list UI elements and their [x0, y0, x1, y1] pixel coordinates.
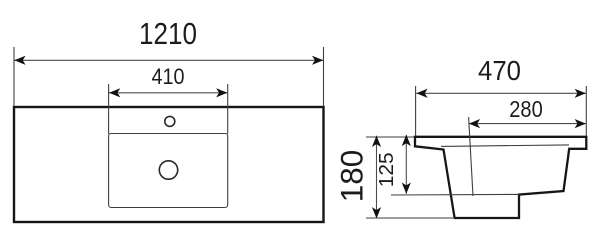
basin inner bottom / 125 extension line	[391, 193, 519, 196]
dimension line 1210	[14, 59, 323, 61]
dimension line 410	[109, 92, 227, 94]
dimension line 470	[416, 92, 586, 94]
svg-text:470: 470	[478, 55, 521, 86]
basin outer profile (side view)	[415, 137, 586, 218]
svg-text:410: 410	[152, 64, 185, 89]
faucet hole	[165, 116, 175, 126]
countertop outline (top view)	[14, 107, 324, 222]
dimension line 280	[469, 123, 586, 125]
extension line right (470/280)	[585, 86, 587, 136]
top extension line (180/125)	[366, 136, 414, 138]
basin inner wall / 280 extension line	[469, 117, 473, 196]
svg-text:1210: 1210	[139, 17, 197, 51]
bottom extension line (180)	[366, 217, 453, 219]
slab underside line (side view)	[441, 145, 569, 147]
basin left side / extension line	[108, 84, 110, 134]
svg-text:180: 180	[334, 150, 370, 203]
svg-text:125: 125	[376, 152, 398, 187]
dimension line 180	[376, 136, 378, 219]
basin outline (top view)	[109, 134, 228, 208]
extension line left (470)	[415, 86, 417, 136]
dimension line 125	[405, 135, 407, 194]
extension line right (1210)	[323, 47, 325, 106]
drain hole	[159, 161, 177, 179]
svg-text:280: 280	[509, 96, 543, 122]
basin right side / extension line	[227, 84, 229, 134]
extension line left (1210)	[13, 47, 15, 106]
